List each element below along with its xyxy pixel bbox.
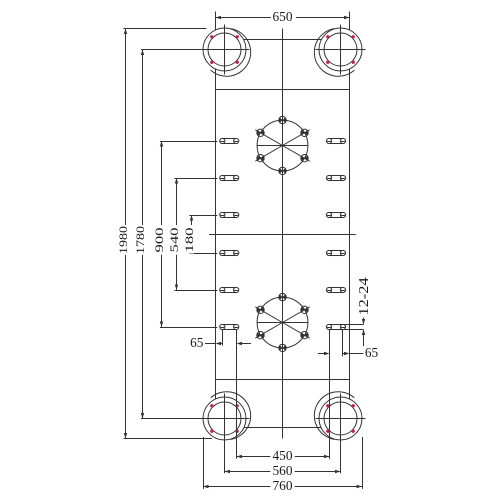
svg-text:540: 540 (167, 228, 181, 253)
svg-text:900: 900 (152, 228, 166, 253)
svg-text:65: 65 (190, 336, 203, 351)
svg-text:65: 65 (365, 346, 378, 361)
svg-text:650: 650 (273, 10, 293, 25)
svg-text:180: 180 (182, 228, 196, 253)
svg-text:760: 760 (273, 479, 293, 494)
svg-text:1780: 1780 (133, 226, 147, 254)
svg-text:1980: 1980 (116, 226, 130, 254)
svg-text:450: 450 (273, 449, 293, 464)
svg-text:12-24: 12-24 (356, 277, 371, 315)
svg-text:560: 560 (273, 464, 293, 479)
